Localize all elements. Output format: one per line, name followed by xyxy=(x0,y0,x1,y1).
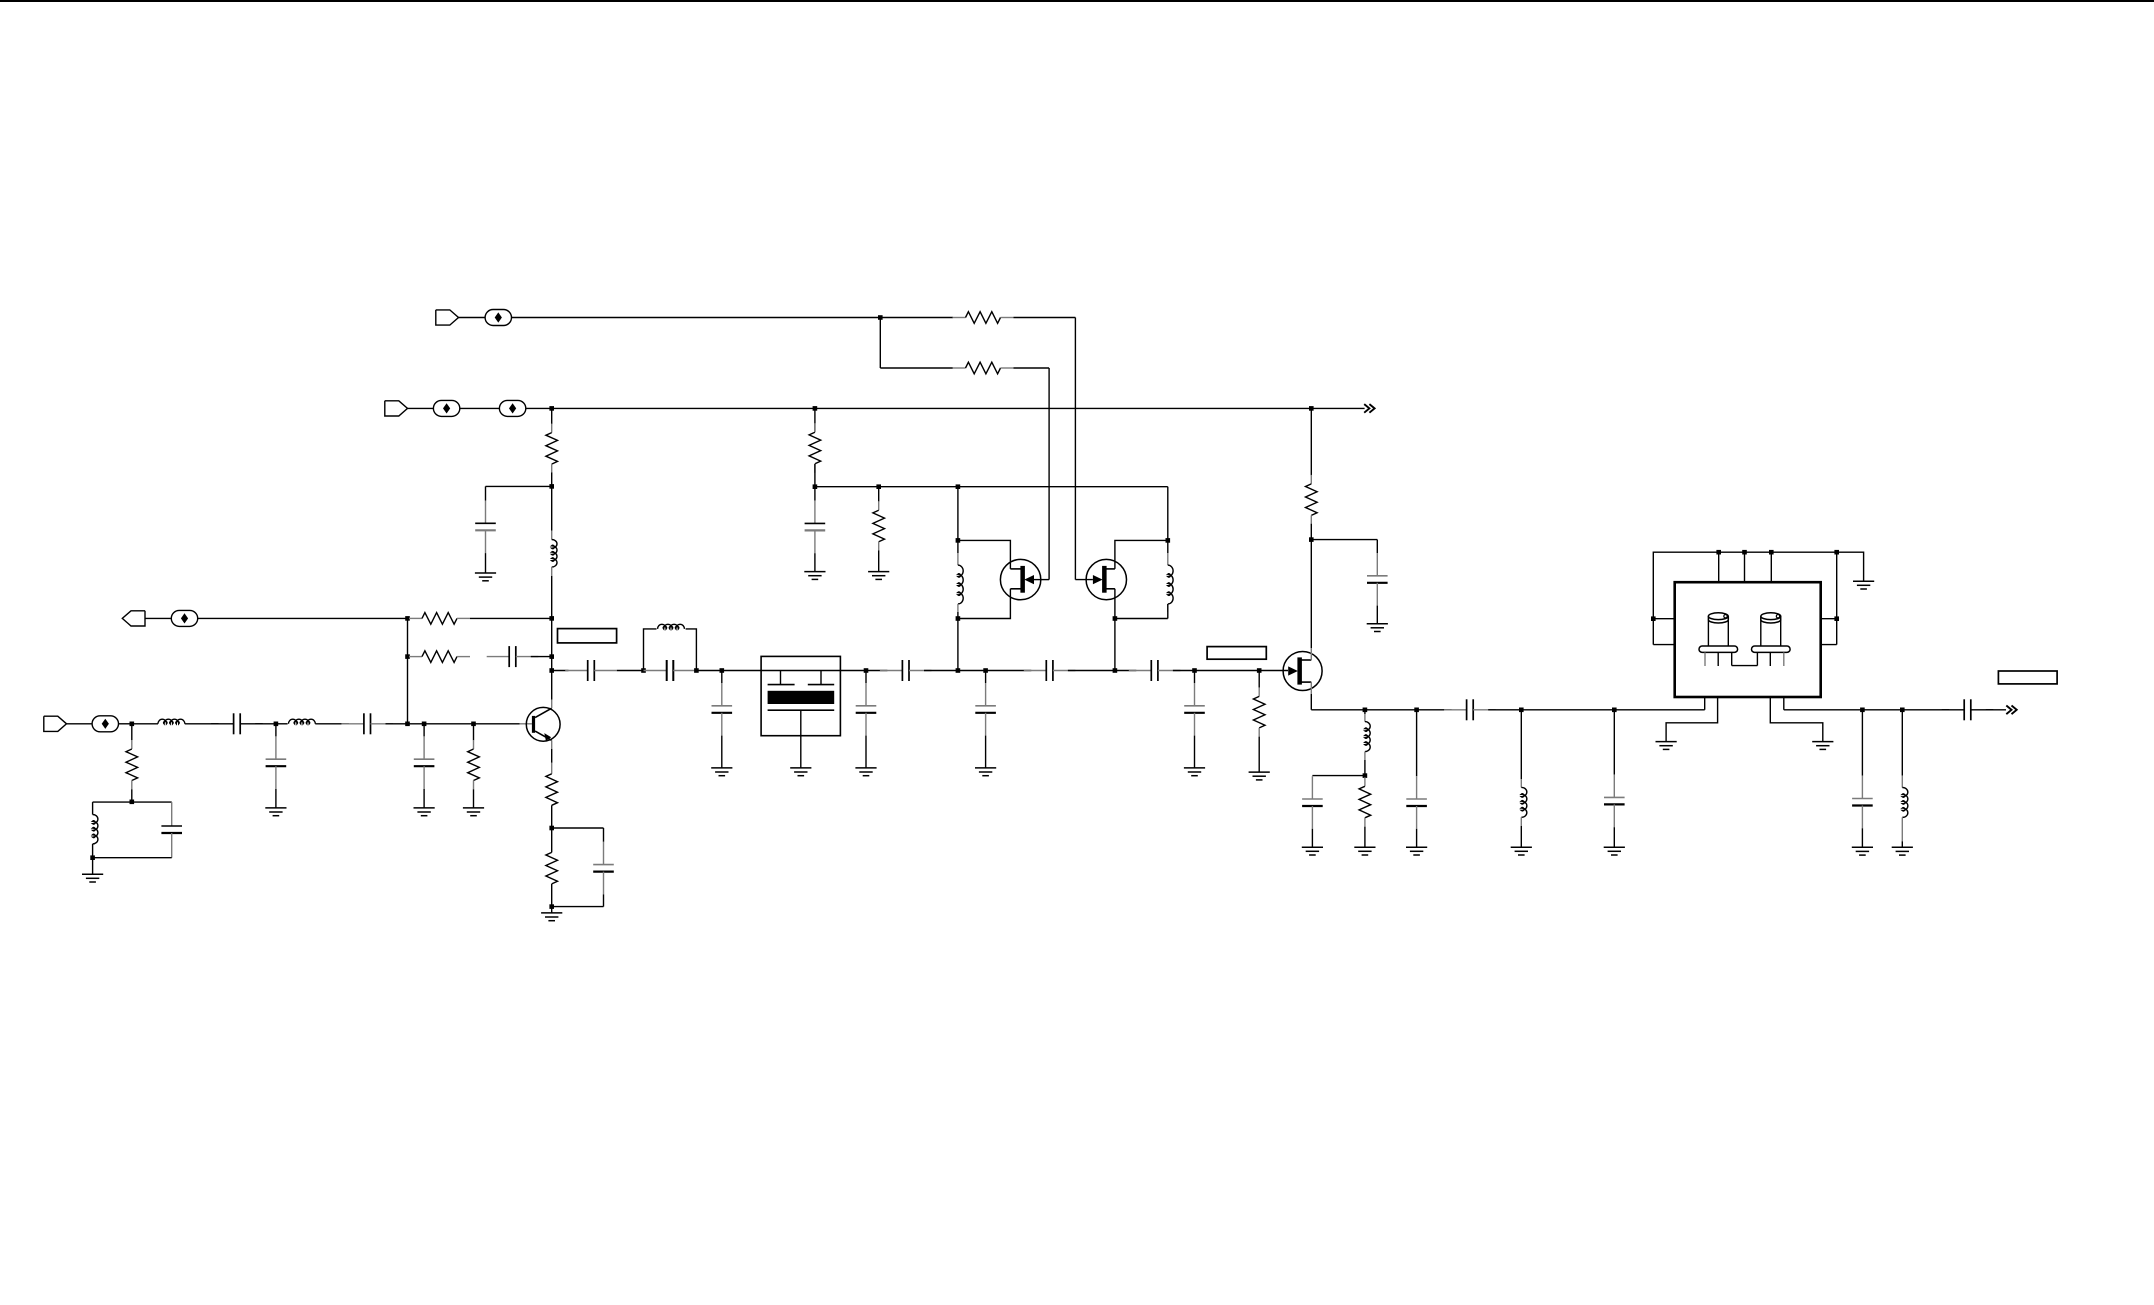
wire (down to Q2 gate) xyxy=(1048,368,1050,580)
wire xyxy=(1821,618,1837,620)
wire xyxy=(275,789,277,808)
wire VCC rail xyxy=(552,407,815,409)
wire xyxy=(424,723,473,725)
inductor L (output shunt) xyxy=(1901,710,1903,776)
wire xyxy=(551,907,553,913)
parallel LC (interstage tank) xyxy=(644,629,657,671)
ground xyxy=(265,808,286,816)
wire xyxy=(1416,710,1418,776)
transformer can 2 xyxy=(1752,613,1791,653)
capacitor C (shunt c) xyxy=(975,683,996,736)
ground xyxy=(475,573,496,581)
capacitor C (shunt e) xyxy=(1406,776,1427,829)
ground xyxy=(1853,581,1874,589)
node source bias split xyxy=(1363,773,1368,778)
capacitor C (series b) xyxy=(880,660,932,681)
wire xyxy=(880,367,953,369)
resistor R (FET pair supply) xyxy=(809,423,821,473)
wire xyxy=(1861,828,1863,847)
capacitor C (Q4 drain bypass) xyxy=(1367,553,1388,606)
node row/Q3 xyxy=(1113,668,1118,673)
node base bias feed xyxy=(405,722,410,727)
wire xyxy=(957,487,959,541)
wire (gate lead Q2) xyxy=(1034,579,1049,581)
wire xyxy=(721,671,723,684)
node input tank bottom xyxy=(90,855,95,860)
wire xyxy=(1310,524,1312,540)
label box (Q1 model name) xyxy=(558,629,617,643)
wire xyxy=(603,828,605,842)
wire xyxy=(1744,552,1746,582)
wire xyxy=(485,553,487,573)
wire xyxy=(1068,670,1115,672)
node bias feedback 1 xyxy=(405,616,410,621)
node shunt L f xyxy=(1519,708,1524,713)
capacitor C (emitter RC) xyxy=(593,842,614,895)
capacitor C (source bypass) xyxy=(1302,776,1323,829)
wire xyxy=(957,612,959,619)
wire xyxy=(1364,827,1366,848)
wire xyxy=(459,317,486,319)
wire xyxy=(119,723,132,725)
inductor L (Q3 parallel) xyxy=(1167,553,1169,565)
wire xyxy=(1614,709,1704,711)
ground xyxy=(1367,624,1388,632)
ground xyxy=(463,808,484,816)
node input shunt branch xyxy=(130,722,135,727)
wire xyxy=(1821,644,1837,646)
capacitor C (shunt a) xyxy=(712,683,733,736)
resistor R (feedback 2) xyxy=(409,651,470,663)
wire xyxy=(1310,408,1312,475)
wire xyxy=(408,656,410,658)
ground xyxy=(1511,847,1532,855)
wire xyxy=(840,670,866,672)
inductor L (source bias feed) xyxy=(1364,710,1366,714)
wire xyxy=(1986,709,2006,711)
wire xyxy=(1488,709,1521,711)
transistor Q3 (JFET, gate left) xyxy=(1086,559,1126,599)
transistor Q4 (JFET stage 2) xyxy=(1283,652,1322,691)
node base shunt R xyxy=(471,722,476,727)
wire xyxy=(1653,618,1674,620)
resistor R (gate bias 1) xyxy=(953,312,1014,324)
node Q1 decoupling xyxy=(549,484,554,489)
ground xyxy=(868,572,889,580)
capacitor C (rail bypass) xyxy=(805,501,826,554)
ground xyxy=(1302,847,1323,855)
wire xyxy=(552,670,569,672)
resistor R (Q4 drain supply) xyxy=(1306,475,1318,525)
wire xyxy=(485,486,487,500)
wire xyxy=(1014,367,1050,369)
wire (top strap) xyxy=(1653,552,1836,644)
wire xyxy=(1312,775,1365,777)
wire xyxy=(1784,709,1863,711)
wire xyxy=(1167,604,1169,619)
wire (gate lead Q3) xyxy=(1075,579,1093,581)
wire xyxy=(617,670,644,672)
wire (to Q4 gate) xyxy=(1259,670,1288,672)
wire xyxy=(985,671,987,684)
ground xyxy=(790,768,811,776)
node row/Q2 xyxy=(956,668,961,673)
ground xyxy=(1184,768,1205,776)
wire xyxy=(460,407,500,409)
resistor R (source bias) xyxy=(1359,777,1371,827)
capacitor C (input series 2) xyxy=(341,713,393,734)
wire (source down) xyxy=(1310,682,1312,694)
node source L xyxy=(1363,708,1368,713)
wire xyxy=(957,540,959,553)
node bias feedback 2 xyxy=(405,654,410,659)
resistor R (emitter 1) xyxy=(546,774,558,806)
wire VCC rail to arrow xyxy=(1311,407,1364,409)
ground xyxy=(541,913,562,921)
parallel LC tank to ground (input) xyxy=(93,801,172,803)
wire xyxy=(1364,760,1366,776)
wire xyxy=(814,408,816,431)
wire xyxy=(1521,709,1614,711)
wire xyxy=(1837,552,1864,581)
wire xyxy=(1167,540,1169,553)
node shunt C c xyxy=(983,668,988,673)
wire xyxy=(132,723,158,725)
resistor R (feedback 1) xyxy=(409,613,470,625)
wire xyxy=(986,670,1032,672)
wire xyxy=(92,858,94,875)
node tank1 right xyxy=(694,668,699,673)
wire xyxy=(408,407,434,409)
wire (block pin to row) xyxy=(1704,697,1706,710)
wire xyxy=(1258,737,1260,772)
wire xyxy=(879,318,881,369)
wire xyxy=(552,906,604,908)
wire xyxy=(1195,670,1260,672)
wire xyxy=(924,670,958,672)
wire rail xyxy=(815,486,1168,488)
current probe I_Probe2 xyxy=(499,400,525,416)
wire xyxy=(423,789,425,808)
label box (Q4 model name) xyxy=(1207,647,1266,660)
wire xyxy=(93,857,172,859)
wire VCC rail xyxy=(815,407,1311,409)
port P1 RF input xyxy=(44,716,67,731)
wire (collector up), junctions pass xyxy=(551,618,553,699)
wire xyxy=(1194,671,1196,684)
port P3 (gate bias 1) xyxy=(436,310,459,325)
wire xyxy=(67,723,93,725)
wire xyxy=(1862,709,1902,711)
node top pin 2 xyxy=(1742,550,1747,555)
wire xyxy=(1861,710,1863,776)
node shunt C g xyxy=(1612,708,1617,713)
capacitor C (input series 1) xyxy=(211,713,263,734)
wire xyxy=(958,670,986,672)
wire xyxy=(814,487,816,501)
node shunt C d xyxy=(1192,668,1197,673)
wire (down to Q3 gate) xyxy=(1074,318,1076,580)
wire xyxy=(1167,487,1169,541)
node VCC/dualFET drain feed xyxy=(813,406,818,411)
node Q2 loop bottom xyxy=(956,616,961,621)
capacitor C (output series) xyxy=(1942,699,1994,720)
node emitter RC top xyxy=(549,826,554,831)
capacitor C (series d) xyxy=(1129,660,1181,681)
wire xyxy=(526,407,552,409)
wire xyxy=(470,617,552,619)
node input LP 1 xyxy=(274,722,279,727)
capacitor C (input shunt 1) xyxy=(266,736,287,789)
wire xyxy=(1520,826,1522,847)
wire (emitter down) xyxy=(551,740,553,749)
node collector/feedback 2 xyxy=(549,654,554,659)
wire xyxy=(1376,606,1378,624)
wire xyxy=(1836,552,1838,644)
can pins xyxy=(1704,652,1706,666)
wire xyxy=(1194,736,1196,768)
node junction bias1/bias2 split xyxy=(878,315,883,320)
wire xyxy=(551,576,553,618)
node input LP 2 xyxy=(422,722,427,727)
balun/package block T1 (boxed) xyxy=(1675,582,1821,697)
wire xyxy=(866,670,887,672)
capacitor C (base shunt) xyxy=(414,736,435,789)
wire xyxy=(1311,709,1365,711)
wire (block pin to output row) xyxy=(1783,697,1785,710)
wire xyxy=(1718,552,1720,582)
wire xyxy=(878,487,880,502)
wire xyxy=(551,805,553,828)
ground xyxy=(1406,847,1427,855)
wire (bias vertical) xyxy=(407,618,409,723)
off-page connector arrow RF out xyxy=(2006,706,2016,715)
ground xyxy=(804,572,825,580)
wire xyxy=(958,589,1011,619)
wire xyxy=(131,789,133,801)
wire xyxy=(878,551,880,572)
wire xyxy=(1014,317,1076,319)
wire xyxy=(1376,540,1378,553)
wire xyxy=(551,473,553,487)
transistor Q1 (NPN BJT) xyxy=(526,707,560,741)
inductor L (Q1 collector choke) xyxy=(551,486,553,530)
node emitter RC bottom xyxy=(549,904,554,909)
inductor L (input tank) xyxy=(93,815,98,844)
node FET pair rail xyxy=(813,484,818,489)
current probe I_Probe3 xyxy=(485,310,511,326)
node top right xyxy=(1834,550,1839,555)
wire xyxy=(1311,539,1377,541)
ground xyxy=(414,808,435,816)
capacitor C (input tank) xyxy=(171,802,173,826)
wire xyxy=(198,617,408,619)
wire xyxy=(315,723,349,725)
resistor R (rail shunt) xyxy=(873,501,885,551)
node shunt C a xyxy=(720,668,725,673)
ground xyxy=(711,768,732,776)
node VCC/Q1 collector feed xyxy=(549,406,554,411)
node Q4 drain/decoupling xyxy=(1309,537,1314,542)
wire xyxy=(486,485,552,487)
port P4 (bias sense, points left) xyxy=(122,611,145,626)
wire xyxy=(473,724,475,740)
wire xyxy=(145,617,171,619)
node top pin 3 xyxy=(1769,550,1774,555)
wire xyxy=(958,540,1011,569)
node top pin 1 xyxy=(1716,550,1721,555)
node input tank top xyxy=(130,800,135,805)
top border bar xyxy=(0,0,2154,2)
wire xyxy=(423,724,425,737)
current probe I_Probe4 xyxy=(171,610,197,626)
inductor L (input series 1) xyxy=(158,719,185,724)
node tank1 left xyxy=(641,668,646,673)
wire (block pin to ground right) xyxy=(1770,697,1823,742)
ground xyxy=(855,768,876,776)
dual-gate FET U1 (boxed device model) xyxy=(761,656,840,735)
wire xyxy=(814,464,816,487)
wire xyxy=(1613,710,1615,775)
wire (can interconnect) xyxy=(1732,665,1758,667)
resistor R (gate bias 2) xyxy=(953,362,1014,374)
ground xyxy=(1604,847,1625,855)
inductor L (shunt f) xyxy=(1520,710,1522,779)
resistor R (base shunt) xyxy=(468,740,480,790)
port P2 VCC xyxy=(385,401,408,416)
wire xyxy=(1770,552,1772,582)
ground xyxy=(1812,742,1833,750)
node output shunt L xyxy=(1900,708,1905,713)
ground xyxy=(82,874,103,882)
transistor Q2 (JFET, gate right) xyxy=(1000,559,1040,599)
ground xyxy=(1354,847,1375,855)
label box (output net name) xyxy=(1998,671,2057,684)
node VCC/Q3 drain feed xyxy=(1309,406,1314,411)
capacitor C (output shunt) xyxy=(1852,776,1873,829)
resistor R (input shunt) xyxy=(126,740,138,790)
wire (substrate to ground) xyxy=(800,736,802,768)
capacitor C (feedback 2) xyxy=(487,646,539,667)
wire xyxy=(386,723,408,725)
node rail/Q2 drain xyxy=(956,484,961,489)
node output shunt C xyxy=(1860,708,1865,713)
wire xyxy=(814,553,816,571)
wire xyxy=(1115,670,1136,672)
wire xyxy=(722,670,761,672)
wire xyxy=(1115,540,1168,569)
wire xyxy=(865,736,867,768)
wire xyxy=(696,670,721,672)
capacitor C (output coupling) xyxy=(1444,699,1496,720)
wire xyxy=(686,629,697,671)
wire xyxy=(603,894,605,906)
capacitor C (shunt g) xyxy=(1604,775,1625,828)
wire xyxy=(1311,829,1313,847)
inductor L (input series 2) xyxy=(289,719,316,724)
wire xyxy=(512,317,881,319)
wire xyxy=(408,723,425,725)
current probe I_Probe1 xyxy=(433,400,459,416)
wire xyxy=(957,619,959,671)
ground xyxy=(1852,847,1873,855)
resistor R (Q4 gate shunt) xyxy=(1253,687,1265,737)
wire xyxy=(275,724,277,737)
wire xyxy=(985,736,987,768)
resistor R (emitter RC) xyxy=(551,828,553,852)
wire xyxy=(551,408,553,424)
inductor L (interstage tank) xyxy=(658,624,685,629)
wire xyxy=(1258,671,1260,688)
node Q3 loop bottom xyxy=(1113,616,1118,621)
capacitor C (shunt d) xyxy=(1184,683,1205,736)
wire xyxy=(473,789,475,808)
wire xyxy=(1115,589,1168,619)
node left pin a xyxy=(1651,616,1656,621)
node Q1 collector output xyxy=(549,668,554,673)
wire xyxy=(185,723,219,725)
current probe I_ProbeIn xyxy=(92,716,118,732)
inductor L (Q2 parallel) xyxy=(957,553,959,565)
capacitor C (interstage coupling 1) xyxy=(565,660,617,681)
node collector/feedback 1 xyxy=(549,616,554,621)
node rail shunt R xyxy=(876,484,881,489)
node Q4 gate bias xyxy=(1257,668,1262,673)
wire xyxy=(1613,827,1615,847)
ground xyxy=(1892,847,1913,855)
wire xyxy=(92,844,94,858)
wire xyxy=(880,317,953,319)
node shunt C e xyxy=(1414,708,1419,713)
wire xyxy=(552,827,604,829)
wire (drain up) xyxy=(1310,648,1312,660)
wire xyxy=(1114,619,1116,671)
node Q2 loop top xyxy=(956,538,961,543)
wire xyxy=(276,723,288,725)
wire xyxy=(531,656,552,658)
wire xyxy=(131,724,133,740)
ground xyxy=(1249,772,1270,780)
wire xyxy=(408,617,410,619)
node right pin a xyxy=(1834,616,1839,621)
capacitor C (shunt b) xyxy=(856,683,877,736)
wire xyxy=(1417,709,1452,711)
resistor R (Q1 collector supply) xyxy=(546,424,558,474)
ground xyxy=(1656,742,1677,750)
wire xyxy=(1173,670,1195,672)
wire xyxy=(865,671,867,684)
capacitor C (interstage tank) xyxy=(644,670,667,672)
node shunt C b xyxy=(864,668,869,673)
capacitor C (Q1 supply bypass) xyxy=(475,501,496,554)
off-page connector arrow VCC xyxy=(1364,404,1374,413)
wire xyxy=(255,723,276,725)
transformer can 1 xyxy=(1699,613,1738,653)
wire (block pin to ground left) xyxy=(1666,697,1718,742)
wire xyxy=(1416,829,1418,847)
wire xyxy=(1365,709,1417,711)
wire xyxy=(1902,709,1949,711)
wire xyxy=(1653,644,1674,646)
ground xyxy=(975,768,996,776)
wire xyxy=(551,884,553,907)
wire xyxy=(1901,841,1903,847)
wire xyxy=(721,736,723,768)
wire xyxy=(474,723,520,725)
capacitor C (series c) xyxy=(1024,660,1076,681)
node Q3 loop top xyxy=(1166,538,1171,543)
